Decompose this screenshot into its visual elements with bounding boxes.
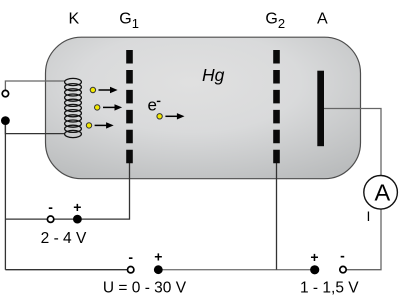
wire: bottom rail right segment up to ammeter (343, 209, 381, 270)
wire: 2-4V row to grid G1 (5, 162, 129, 219)
anode plate A (317, 71, 324, 147)
wire: heater bottom lead from left terminal to coil (5, 121, 65, 134)
wire: bottom rail from common to ammeter (5, 269, 130, 271)
wire: anode to ammeter (324, 109, 382, 177)
terminal: heater upper (open) (2, 90, 8, 96)
arrow for e4 (165, 113, 184, 119)
electron e3 (86, 123, 91, 128)
svg-text:+: + (154, 249, 162, 265)
svg-text:Hg: Hg (202, 65, 225, 85)
wire: bottom rail mid segment (158, 269, 315, 271)
svg-text:-: - (128, 249, 133, 265)
svg-text:A: A (317, 11, 328, 28)
grid G1 (dashed electrode) (126, 50, 133, 163)
svg-text:U = 0 - 30 V: U = 0 - 30 V (103, 280, 187, 297)
wire: heater top lead from left terminal to coil (5, 81, 65, 93)
svg-text:-: - (340, 248, 345, 264)
svg-text:1 - 1,5 V: 1 - 1,5 V (300, 280, 359, 297)
svg-text:+: + (310, 249, 318, 265)
arrow for e1 (99, 87, 118, 93)
electron e2 (95, 105, 100, 110)
wire: grid G2 down to bottom rail (276, 162, 278, 270)
svg-text:2 - 4 V: 2 - 4 V (41, 230, 87, 247)
battery 1-1.5V minus terminal (open) (340, 266, 346, 272)
battery U minus terminal (open) (128, 267, 134, 273)
battery U plus terminal (filled) (154, 265, 163, 274)
battery 2-4V minus terminal (open) (47, 216, 53, 222)
battery 2-4V plus terminal (filled) (73, 215, 82, 224)
svg-text:A: A (374, 179, 390, 205)
svg-text:K: K (68, 11, 79, 28)
grid G2 (dashed electrode) (273, 50, 280, 163)
electron e1 (90, 87, 95, 92)
electron e4 (157, 114, 162, 119)
svg-text:I: I (367, 208, 371, 224)
tube envelope (Hg tube) (46, 37, 361, 179)
wire: common left vertical down to bottom rail (4, 121, 6, 270)
arrow for e2 (103, 104, 122, 110)
svg-text:e: e (148, 96, 157, 115)
svg-text:G2: G2 (265, 11, 285, 31)
ammeter A (364, 176, 398, 210)
svg-text:G1: G1 (119, 11, 139, 31)
cathode heater coil K (65, 78, 82, 137)
battery 1-1.5V plus terminal (filled) (310, 265, 319, 274)
svg-text:-: - (48, 199, 53, 215)
arrow for e3 (95, 122, 114, 128)
svg-text:+: + (73, 199, 81, 215)
terminal: heater lower (filled) (1, 116, 10, 125)
